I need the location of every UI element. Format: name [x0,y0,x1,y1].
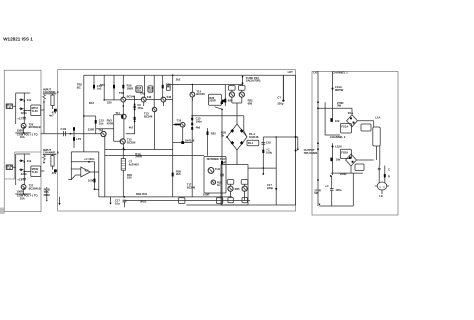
svg-text:100u: 100u [335,188,341,192]
node A2 [24,110,26,112]
resistor R15 [95,120,97,124]
wire rail x144.4 [143,75,145,97]
bridge D1A [347,115,358,127]
wire quad links [232,90,242,107]
svg-text:270: 270 [148,89,153,93]
wire inv input [71,168,81,170]
wire branch x95.7 [95,116,97,134]
svg-text:L1A: L1A [375,115,380,119]
node LS1A [332,88,334,90]
divider channel B section [5,152,41,179]
svg-text:7R5 OHMS: 7R5 OHMS [304,151,318,155]
diode D A2 [20,107,23,110]
wire T13 down [154,112,156,150]
module R19 [148,86,153,92]
wire rail x104.2 [103,75,105,100]
svg-text:2k2: 2k2 [176,77,181,81]
wire top rail A [16,92,31,94]
svg-text:BC: BC [77,85,81,89]
svg-text:220R: 220R [340,172,346,176]
node bus left [70,133,72,135]
resistor 47k B [51,156,54,167]
blob C20 [262,150,264,153]
resistor module bb1 [179,198,185,204]
wire right col 1 [374,121,380,166]
transistor T26 [21,123,26,128]
svg-text:O/P: O/P [222,161,227,165]
svg-text:470u: 470u [137,106,143,110]
node y149.5 [124,149,126,151]
wire MT/B to rail [13,166,16,168]
box input channels outline [4,70,41,211]
svg-text:470R: 470R [107,121,113,125]
resistor bar T16 base [175,124,181,126]
svg-text:10A: 10A [20,196,25,200]
svg-text:8R/5W: 8R/5W [335,88,344,92]
resistor 5k6 B [43,154,46,161]
node rail c [317,142,319,144]
wire x222 branch [215,107,223,205]
wire x192.2 [191,156,193,197]
svg-text:7L30: 7L30 [32,109,39,113]
svg-text:R: R [388,174,390,178]
wire vertical A2 [23,93,25,123]
svg-text:R25: R25 [211,132,216,136]
svg-text:TR6: TR6 [119,91,125,95]
resistor MT/B [6,165,12,170]
wire diamond2 right [356,159,373,161]
svg-text:1N4148: 1N4148 [185,139,195,143]
svg-text:7L30: 7L30 [32,170,39,174]
wire base link x113.7 [96,115,122,142]
wire fb left [70,152,72,180]
box main amplifier outline [58,70,296,211]
capacitor C8 [23,178,26,180]
node x263 b [262,173,264,175]
diode blob B [54,169,57,172]
svg-text:10A: 10A [20,135,25,139]
transistor T11 [122,114,127,119]
svg-text:TUS: TUS [6,106,12,110]
wire diamond1 right [357,120,373,122]
svg-text:BC556: BC556 [127,140,136,144]
wire input A down [43,102,45,134]
rail x134.6 [126,96,135,134]
wire x276.2 branch [275,137,277,205]
resistor 0R5 A [228,198,233,203]
svg-text:2k: 2k [221,133,224,137]
svg-text:C1/2: C1/2 [61,127,67,131]
svg-text:4u7/40V: 4u7/40V [129,162,139,166]
svg-text:0R22: 0R22 [140,200,147,204]
wire rail x123.3 [122,75,124,97]
svg-text:10k: 10k [336,158,341,162]
wire TR bases down [123,102,163,114]
resistor 0R5 B [242,198,247,203]
scan smudge artifact [0,208,5,215]
diode D B2 [20,168,23,171]
resistor blob x207.5 [207,131,209,135]
pot RV2A [330,158,332,162]
wire T15 links [122,144,124,148]
wire output [90,171,99,173]
wire mid bus [168,84,243,86]
wire rail x114 [113,75,115,100]
transistor T16 [180,122,185,127]
node x104 [103,99,105,101]
node top bus [172,74,174,76]
wire rail x154.2 [153,75,155,107]
resistor module bb2 [216,198,222,204]
node rail a [317,101,319,103]
wire relay pins [24,109,44,112]
node A1 [24,100,26,102]
wire rv1a corner [325,102,340,135]
wire non-inv input [68,175,81,180]
transistor T1B [239,92,244,97]
wire rail x172.7 long [172,75,174,197]
transistor T2A [228,186,233,191]
svg-text:T16: T16 [177,118,182,122]
svg-text:100R: 100R [203,192,209,196]
wire rail x94 [93,75,95,90]
node T14 emitter [191,115,193,117]
module R18 [136,86,143,92]
wire lamp branch [73,128,75,148]
node fuse top [242,76,244,78]
node cap [282,100,284,102]
wire 220R h [331,172,363,174]
output stage box [221,165,248,205]
capacitor C12 on bus [64,131,66,136]
wire vertical B1 [15,154,17,185]
svg-text:LS2A: LS2A [335,145,342,149]
svg-text:TH1: TH1 [215,167,221,171]
svg-text:W12821 ISS 1: W12821 ISS 1 [3,36,33,41]
svg-text:1k: 1k [217,183,220,187]
svg-text:10n: 10n [99,121,104,125]
transistor T13 [152,107,156,111]
svg-text:BC546: BC546 [144,114,153,118]
resistor blob x172.7 [172,173,174,177]
node B2 [24,171,26,173]
node B3 [23,193,25,195]
svg-text:220k: 220k [21,111,27,115]
svg-text:RL1: RL1 [248,141,254,145]
svg-text:180R: 180R [127,86,133,90]
svg-text:4k6: 4k6 [196,126,201,130]
diode blob A [54,109,57,112]
svg-text:D1A: D1A [348,111,353,115]
resistor blob x94 [93,85,95,89]
wire bus y116 [84,115,96,117]
blob C16 [221,161,223,164]
rail x332.5 [332,72,334,123]
svg-text:FS1A: FS1A [341,125,348,129]
svg-text:BC546: BC546 [196,92,205,96]
diode blob left [221,101,223,104]
wire right cap branch [282,75,284,100]
svg-text:41k: 41k [27,159,32,163]
svg-text:R1B R10: R1B R10 [136,192,148,196]
node y116 [83,115,85,117]
svg-text:C?: C? [277,96,281,100]
diode D A1 [20,98,23,101]
node A in [43,101,45,103]
resistor blob x114 [113,85,115,89]
svg-text:220p: 220p [267,186,273,190]
svg-text:5W: 5W [337,104,341,108]
svg-text:47k: 47k [52,171,57,175]
wire out vertical [98,152,100,197]
cap 100u right [330,189,334,191]
wire fb top [71,151,99,153]
svg-text:240R: 240R [135,155,141,159]
node r2 [134,109,136,111]
bridge D2A [346,154,357,166]
svg-text:+C7: +C7 [17,117,23,121]
svg-text:FS2A: FS2A [341,150,348,154]
svg-text:+C: +C [325,184,329,188]
pot RV1A [330,118,332,122]
bottom bus 1 [99,196,232,198]
bottom bus 2 [124,200,250,202]
wire bridge bottom [236,150,238,165]
node LS2A [332,146,334,148]
module R7A [229,86,236,91]
svg-text:TUS: TUS [6,167,12,171]
transistor T1A [229,92,234,97]
svg-text:2A(3A/75R): 2A(3A/75R) [246,79,260,83]
wire T16 down [182,127,184,143]
node r3 [134,120,136,122]
rail2 x332.5 [332,143,334,175]
ground stub left [59,197,61,203]
svg-text:+C8: +C8 [17,178,23,182]
wire left branch x225.3 [224,85,226,107]
wire h y149.5 [105,149,173,151]
resistor MT/A [6,104,12,109]
node C21 [275,188,277,190]
svg-text:1N4148: 1N4148 [249,135,259,139]
svg-text:BC284LB: BC284LB [29,186,41,190]
wire bottom B [15,193,31,195]
svg-text:CHANNEL 1: CHANNEL 1 [332,70,348,74]
svg-text:100R: 100R [17,129,23,133]
rail x318 [317,72,319,207]
TO3 leads [379,166,385,183]
svg-text:10u: 10u [115,201,120,205]
node bridge left [226,136,228,138]
resistor blob r3 [134,117,136,120]
rail x207.5 [207,128,209,156]
svg-text:REM: REM [44,193,51,197]
svg-text:SEE TEXT: SEE TEXT [214,157,227,161]
op-amp IC1 [81,167,90,177]
transistor T15 [120,139,125,144]
wire T18 down [104,136,106,197]
wire main input bus [41,133,102,135]
svg-text:546: 546 [147,95,152,99]
svg-text:100R: 100R [17,190,23,194]
wire fuse branch [242,75,244,86]
svg-text:C19: C19 [266,141,271,145]
resistor tall R23 [121,159,125,171]
node base row [123,105,125,107]
transistor TR5 [121,97,126,102]
svg-text:41k: 41k [27,98,32,102]
svg-text:180: 180 [127,176,132,180]
svg-text:5W: 5W [314,191,318,195]
svg-text:220: 220 [107,100,112,104]
module FS1A [341,124,352,134]
module right of D2A [355,164,364,171]
resistor blob LP1b [73,137,75,141]
wire T14 top [191,85,193,92]
svg-text:10k: 10k [335,119,340,123]
O/P terminals [296,137,298,149]
wire vertical A1 [15,93,17,124]
svg-text:BC546: BC546 [187,185,196,189]
wires quad bottom [231,184,245,200]
resistor blob R27 [191,123,193,126]
resistor blob x162.7 [162,85,164,89]
svg-text:+C 100n: +C 100n [84,157,95,161]
bridge BR1 [227,124,247,150]
wire vas bus y115.8 [192,116,247,137]
svg-text:2k6: 2k6 [176,172,181,176]
rail x192.2 upper [191,98,193,157]
wire h y99.9 [104,99,121,101]
resistor R16 [122,85,124,89]
wire emitter down B [23,189,25,194]
wire relay pins B [24,170,44,173]
wire vertical B2 [23,154,25,184]
wire fb mid [71,161,94,163]
module R7B [238,86,245,91]
thermistor TH1 [208,168,214,174]
svg-text:4k7: 4k7 [129,125,134,129]
svg-text:546: 546 [167,95,172,99]
svg-text:LP1: LP1 [76,137,81,141]
svg-text:IC1: IC1 [85,168,90,172]
svg-text:220R: 220R [88,128,94,132]
wire d2a bottom [350,166,352,173]
diode blobs in bridge [230,129,234,133]
wire T11 to T15 [123,119,125,139]
node fb [88,161,90,163]
wire MT/A to rail [13,105,16,107]
module R8A [227,180,234,185]
svg-text:BC546: BC546 [127,94,136,98]
diode D B1 [20,159,23,162]
svg-text:R20: R20 [166,83,171,87]
wire protection left [105,154,204,156]
wire rail x83.8 [83,75,85,152]
wire T14 down [191,98,193,102]
wire h transistor row links [126,99,173,101]
bottom wire right box [320,173,354,206]
node out [94,188,96,190]
svg-text:680: 680 [228,99,233,103]
ground stub [110,197,112,203]
wire top supply bus [84,75,296,205]
node rail d [317,148,319,150]
resistor blob x225.3 [224,99,226,103]
TO3 transistor TR1 [377,182,387,190]
wire out to O/P [263,136,295,138]
transistor T18 [101,131,106,136]
transistor T2B [242,186,247,191]
wire x263.3 branch [262,137,264,174]
resistor R33 [94,162,96,190]
svg-text:C: C [388,167,390,171]
transistor T14 [190,92,195,97]
wire emitter down [23,128,25,133]
svg-text:220R: 220R [209,99,215,103]
box power/output outline [312,72,398,216]
wire d1a top [318,108,352,115]
wire y168 [248,167,276,169]
node x263 a [262,167,264,169]
svg-text:CHANNEL B: CHANNEL B [43,151,59,155]
svg-text:0R5: 0R5 [235,187,240,191]
svg-text:4n7: 4n7 [49,113,54,117]
svg-text:LKT: LKT [288,70,294,74]
svg-text:R13: R13 [89,101,94,105]
transistor T27 [21,185,26,190]
cap blob 470u [134,106,136,109]
module R30 [209,94,222,105]
diode 1N4148 [173,142,193,144]
node B in [43,162,45,164]
wire rail x162.7 [162,75,164,97]
svg-text:TR8: TR8 [140,92,146,96]
wire R23 down [122,170,124,197]
resistor 47k A [51,95,54,106]
transistor TR7 [141,97,146,102]
bottom bus 3 [187,204,296,206]
wire bottom A [15,132,31,134]
transistor TR16 [211,180,215,184]
module L1A right [361,124,371,131]
transistor TR9 [161,97,166,102]
module R8B [241,180,248,185]
svg-text:680: 680 [248,101,253,105]
capacitor on x222 [220,174,224,176]
svg-text:1n2: 1n2 [97,87,102,91]
module L1A column [373,127,380,146]
cap blob C15 [191,118,193,121]
capacitor C19 [261,143,265,145]
svg-text:TR4: TR4 [100,83,106,87]
protection box [204,156,226,193]
node rail e [317,179,319,181]
resistor R20 [167,87,171,90]
svg-text:100u: 100u [266,150,272,154]
module FS2A [340,149,351,158]
resistor blob LP1a [73,127,75,130]
relay module RL/A [31,105,41,116]
svg-text:CHANNEL 2: CHANNEL 2 [330,135,346,139]
wire bridge top [236,107,238,124]
module RL1 [247,140,259,146]
resistor 5k6 A [43,94,46,101]
svg-text:220p: 220p [277,102,283,106]
node rail b [317,107,319,109]
fuse FS2 [242,82,244,84]
node B1 [24,161,26,163]
